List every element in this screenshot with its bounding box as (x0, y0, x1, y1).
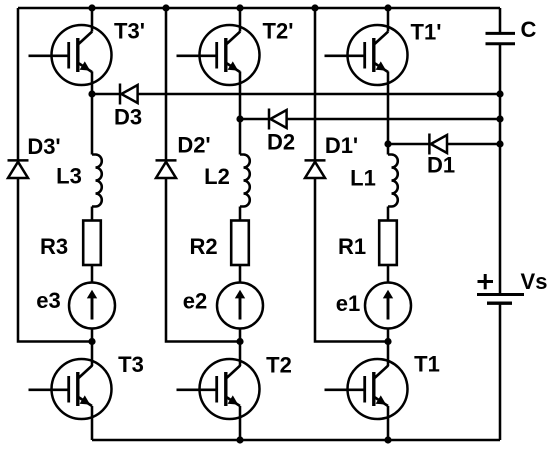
wire T3' emitter down to L3 (91, 72, 94, 155)
wire T1 collector (387, 342, 390, 367)
wire top bus (18, 7, 500, 10)
svg-text:T2: T2 (266, 352, 292, 377)
capacitor C (486, 33, 516, 43)
wire right rail from battery Vs to bottom bus (499, 303, 502, 440)
wire D3' rail (top bus to node e3/T3) (18, 8, 92, 342)
wire D2 net (node 2 to right rail) (240, 118, 500, 121)
svg-text:e3: e3 (36, 288, 60, 313)
wire D1 net (node 1 to right rail) (388, 143, 500, 146)
wire D3 net (node 3 to right rail) (92, 93, 500, 96)
wire T3' collector (91, 8, 94, 32)
diode D2' (156, 160, 177, 178)
junction dot node e3/T3/D3' (88, 338, 95, 345)
current source e1 (365, 283, 411, 329)
wire right rail from top bus to capacitor C (499, 8, 502, 33)
diode D3' (8, 160, 29, 178)
transistor T3 (IGBT) (29, 359, 112, 419)
inductor L2 (240, 155, 250, 207)
svg-text:D2: D2 (267, 129, 295, 154)
wire T2 collector (239, 342, 242, 367)
wire T1' collector (387, 8, 390, 32)
wire T2' emitter down to L2 (239, 72, 242, 155)
wire R3 to e3 (91, 265, 94, 283)
junction dot T3' collector at top bus (88, 4, 95, 11)
svg-text:D3: D3 (114, 104, 142, 129)
junction dot D2 net at right rail (496, 115, 503, 122)
resistor R1 (379, 221, 397, 266)
battery Vs (477, 274, 524, 303)
wire bottom bus (92, 439, 500, 442)
wire D2' rail (top bus to node e2/T2) (166, 8, 240, 342)
svg-text:D1: D1 (427, 152, 455, 177)
junction dot node 3 (T3' emitter / D3 / L3) (88, 90, 95, 97)
resistor R2 (231, 221, 249, 266)
wire T3 collector (91, 342, 94, 367)
wire right rail from capacitor C to battery Vs (499, 44, 502, 295)
svg-text:C: C (521, 17, 537, 42)
junction dot node e2/T2/D2' (236, 338, 243, 345)
transistor T2' (IGBT) (177, 25, 260, 85)
junction dot T2' collector at top bus (236, 4, 243, 11)
junction dot node 2 (T2' emitter / D2 / L2) (236, 115, 243, 122)
svg-text:D2': D2' (177, 132, 210, 157)
transistor T3' (IGBT) (29, 25, 112, 85)
wire T1' emitter down to L1 (387, 72, 390, 155)
junction dot D1 net at right rail (496, 140, 503, 147)
svg-text:T1: T1 (414, 351, 440, 376)
junction dot T2 emitter at bottom bus (236, 436, 243, 443)
svg-text:T3': T3' (114, 18, 145, 43)
inductor L1 (388, 155, 398, 207)
svg-text:R3: R3 (40, 234, 68, 259)
junction dot node 1 (T1' emitter / D1 / L1) (384, 140, 391, 147)
junction dot D1' rail at top bus (311, 4, 318, 11)
transistor T1' (IGBT) (325, 25, 408, 85)
transistor T2 (IGBT) (177, 359, 260, 419)
diode D2 (269, 109, 287, 130)
svg-text:R2: R2 (189, 234, 217, 259)
wire T2' collector (239, 8, 242, 32)
diode D3 (120, 84, 138, 105)
svg-text:T2': T2' (263, 18, 294, 43)
junction dot D3 net at right rail (496, 90, 503, 97)
svg-text:D1': D1' (325, 133, 358, 158)
junction dot D2' rail at top bus (162, 4, 169, 11)
diode D1 (429, 134, 447, 155)
junction dot T1' collector at top bus (384, 4, 391, 11)
transistor T1 (IGBT) (325, 359, 408, 419)
svg-text:T1': T1' (411, 19, 442, 44)
wire L3 to R3 (91, 207, 94, 222)
junction dot T1 emitter at bottom bus (384, 436, 391, 443)
wire T3 emitter to bottom bus (91, 406, 94, 440)
wire e1 to node e1/T1 (387, 329, 390, 342)
svg-text:L3: L3 (56, 163, 82, 188)
wire L1 to R1 (387, 207, 390, 222)
wire D1' rail (top bus to node e1/T1) (315, 8, 388, 342)
resistor R3 (83, 221, 101, 266)
diode D1' (305, 160, 326, 178)
svg-text:L2: L2 (204, 164, 230, 189)
wire e2 to node e2/T2 (239, 329, 242, 342)
svg-text:T3: T3 (118, 352, 144, 377)
svg-text:R1: R1 (338, 234, 366, 259)
wire e3 to node e3/T3 (91, 329, 94, 342)
wire L2 to R2 (239, 207, 242, 222)
current source e2 (217, 283, 263, 329)
wire R1 to e1 (387, 265, 390, 283)
svg-text:e2: e2 (183, 288, 207, 313)
wire T2 emitter to bottom bus (239, 406, 242, 440)
svg-text:L1: L1 (350, 165, 376, 190)
svg-text:Vs: Vs (521, 269, 548, 294)
inductor L3 (92, 155, 102, 207)
svg-text:e1: e1 (336, 291, 360, 316)
wire R2 to e2 (239, 265, 242, 283)
wire T1 emitter to bottom bus (387, 406, 390, 440)
current source e3 (69, 283, 115, 329)
svg-text:D3': D3' (27, 134, 60, 159)
junction dot node e1/T1/D1' (384, 338, 391, 345)
